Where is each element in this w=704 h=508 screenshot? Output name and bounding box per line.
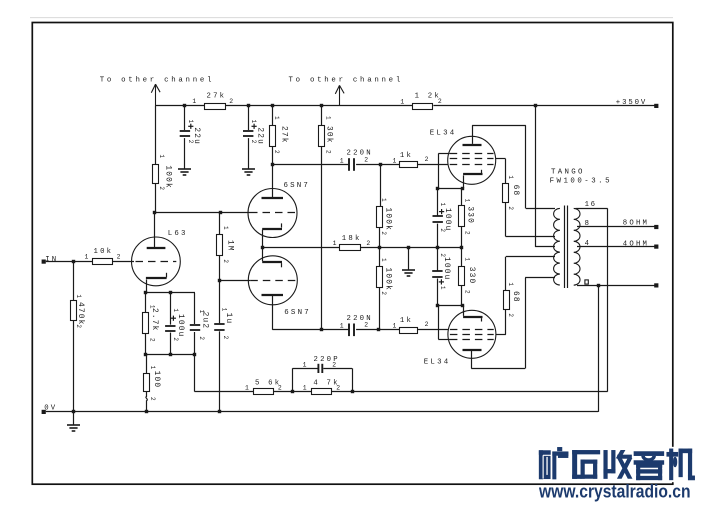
capacitor 22u-2: [243, 130, 253, 132]
node FB1: [291, 390, 294, 393]
svg-text:2: 2: [117, 253, 121, 260]
wire 100u-b to kb rail: [437, 279, 439, 306]
resistor 68-1 body: [503, 184, 509, 203]
svg-text:1: 1: [507, 282, 514, 286]
terminal 8ohm: [654, 225, 658, 229]
svg-text:+350V: +350V: [616, 99, 647, 107]
wire cathodes to 18k: [263, 247, 340, 249]
node B: [377, 328, 380, 331]
wire FB2 up-down: [352, 368, 354, 391]
svg-text:1k: 1k: [400, 317, 413, 325]
plus of 100u-b: [439, 281, 444, 283]
6SN7a cathode bar: [262, 228, 282, 230]
svg-text:1: 1: [439, 203, 446, 207]
svg-text:2: 2: [438, 98, 442, 105]
L63 grid dashes: [136, 261, 177, 263]
node kc2: [169, 291, 172, 294]
svg-text:1: 1: [464, 257, 471, 261]
svg-text:18k: 18k: [342, 235, 362, 243]
6SN7b anode bar: [262, 294, 284, 296]
node L63 anode / 100k: [153, 211, 156, 214]
watermark glyph ji: [670, 449, 673, 480]
svg-text:2: 2: [229, 98, 233, 105]
watermark background: [535, 447, 697, 482]
svg-text:2: 2: [425, 156, 429, 163]
svg-text:1: 1: [439, 286, 446, 290]
EL34a anode bar: [463, 144, 482, 146]
capacitor 100u-b: [432, 270, 442, 272]
svg-text:2: 2: [149, 397, 156, 401]
wire EL34a g2 exit: [496, 158, 506, 160]
svg-text:22u: 22u: [256, 127, 264, 145]
terminal 4ohm: [654, 245, 658, 249]
svg-text:1: 1: [340, 323, 344, 330]
node common cathodes: [261, 246, 264, 249]
arrow to other channel (right): [339, 85, 341, 106]
EL34b anode bar: [463, 349, 482, 351]
node FB2: [351, 390, 354, 393]
capacitor 2u2: [190, 324, 200, 326]
resistor 68-2 body: [504, 291, 510, 310]
EL34a grid1 dashes: [450, 153, 494, 155]
wire IN to 10k: [46, 261, 93, 263]
svg-text:2: 2: [148, 338, 155, 342]
svg-text:100u: 100u: [176, 314, 184, 338]
resistor 1k-2 body: [400, 328, 418, 334]
resistor 27k-vert body: [270, 126, 276, 147]
svg-text:1: 1: [340, 157, 344, 164]
wire 10k to L63 grid: [113, 261, 134, 263]
node kb2: [461, 304, 464, 307]
EL34b grid2 dashes: [450, 334, 494, 336]
wire 16ohm tap: [576, 208, 608, 210]
wire 22u-2 to ground: [248, 138, 250, 169]
svg-text:2: 2: [364, 156, 368, 163]
svg-text:2: 2: [336, 385, 340, 392]
wire 330-a to ground rail: [461, 227, 463, 248]
svg-text:1k: 1k: [400, 152, 413, 160]
plus of 22u-2: [252, 125, 257, 127]
EL34b cathode hook: [481, 318, 483, 321]
watermark glyph kuang: [539, 451, 550, 455]
node lr1: [144, 353, 147, 356]
svg-text:FW100-3.5: FW100-3.5: [550, 177, 612, 185]
wire 68-2 to UL tap lower: [506, 256, 555, 258]
svg-text:1: 1: [149, 366, 156, 370]
wire lower rail: [146, 354, 195, 356]
wire input node to 470k: [73, 262, 75, 300]
wire 2.7k to rail: [145, 333, 147, 354]
wire 470k to 0V rail: [73, 320, 75, 412]
svg-text:1: 1: [400, 98, 404, 105]
svg-text:1: 1: [75, 294, 82, 298]
pentode EL34 upper: [448, 136, 496, 184]
watermark glyph shi: [573, 450, 600, 454]
svg-text:To other channel: To other channel: [100, 76, 214, 84]
svg-text:1u: 1u: [224, 313, 232, 325]
secondary winding: [574, 208, 580, 285]
svg-text:To other channel: To other channel: [289, 76, 403, 84]
resistor 1.2k horizontal body: [413, 104, 433, 110]
6SN7b grid dashes: [250, 280, 295, 282]
svg-text:2: 2: [464, 290, 471, 294]
wire 330-b to kb rail: [461, 285, 463, 305]
wire 100k-A to node M: [379, 227, 381, 247]
resistor 100 body: [144, 374, 150, 392]
svg-text:2: 2: [366, 240, 370, 247]
6SN7a cathode hook: [281, 223, 283, 227]
wire EL34b anode to primary bottom: [525, 277, 555, 279]
wire B+ front rail middle: [225, 105, 413, 107]
wire L63 cathode rail: [146, 292, 195, 294]
svg-text:2: 2: [364, 322, 368, 329]
wire EL34b cathode rail: [437, 305, 462, 307]
svg-text:2.7k: 2.7k: [150, 308, 158, 332]
wire EL34a g3 exit: [438, 153, 449, 155]
wire rail to R100k-left: [155, 106, 157, 165]
6SN7b cathode bar: [262, 261, 282, 263]
wire 100u-a to ground rail: [437, 224, 439, 248]
wire 30k down to lower anode node: [321, 146, 323, 330]
ground mid rail: [402, 269, 415, 271]
wire 1u to 0V rail: [219, 331, 221, 412]
node rail/B+ drop: [534, 104, 537, 107]
wire into 6SN7b grid: [220, 280, 251, 282]
svg-text:6SN7: 6SN7: [284, 182, 311, 190]
wire EL34a anode right: [472, 125, 526, 127]
svg-text:2: 2: [380, 291, 387, 295]
L63 cathode bar: [146, 277, 167, 279]
terminal IN: [42, 260, 46, 264]
svg-text:TANGO: TANGO: [551, 168, 585, 176]
capacitor 100u-c: [165, 325, 175, 327]
capacitor 220N-1: [348, 158, 350, 171]
wire grid-b node down to 1u: [219, 280, 221, 323]
wire ka to 330-a: [461, 188, 463, 205]
svg-text:1: 1: [324, 116, 331, 120]
svg-text:1: 1: [85, 253, 89, 260]
wire 68-1 down: [505, 203, 507, 237]
resistor 100k-B body: [377, 267, 383, 288]
node rail/22u-2: [247, 104, 250, 107]
wire rail to C 22u-2: [248, 106, 250, 130]
svg-text:1: 1: [158, 154, 165, 158]
svg-text:2: 2: [425, 321, 429, 328]
wire 6SN7b anode lead: [272, 296, 274, 330]
node ka2: [461, 187, 464, 190]
6SN7a anode bar: [262, 197, 284, 199]
svg-text:1: 1: [303, 362, 307, 369]
EL34a cathode bar: [463, 173, 482, 175]
wire g3 to cathode node: [438, 154, 440, 189]
node anode-b/30k: [320, 328, 323, 331]
wire B+ rail to +350V: [433, 105, 656, 107]
svg-text:1: 1: [192, 98, 196, 105]
svg-text:220N: 220N: [347, 150, 373, 158]
6SN7b cathode hook: [281, 263, 283, 267]
wire 6SN7a cathode lead: [262, 230, 264, 248]
watermark glyph yin: [634, 452, 664, 456]
wire 0 tap: [577, 285, 656, 287]
wire g3 to cathode node b: [438, 305, 440, 339]
svg-text:100u: 100u: [442, 257, 450, 281]
wire ground rail to 330-b: [461, 247, 463, 266]
wire EL34a cathode rail: [438, 188, 463, 190]
wire 4ohm tap: [577, 246, 656, 248]
node ka1: [436, 187, 439, 190]
node rail/30k: [320, 104, 323, 107]
wire L63 cathode lead: [146, 280, 148, 294]
resistor 1k-1 body: [400, 162, 418, 168]
resistor 100k-left body: [153, 165, 159, 184]
svg-text:8OHM: 8OHM: [623, 220, 649, 228]
wire to 100u-c: [170, 293, 172, 325]
wire 16ohm feedback drop: [607, 208, 609, 391]
wire 1k-2 to EL34b grid: [418, 329, 448, 331]
node rail/27k-vert: [271, 104, 274, 107]
wire 18k to ground rail: [361, 247, 462, 249]
resistor 470k body: [71, 301, 77, 321]
svg-text:4OHM: 4OHM: [623, 240, 649, 248]
triode L63: [132, 237, 181, 286]
wire grid-a node to 1M: [219, 213, 221, 234]
wire into 6SN7a grid: [221, 212, 250, 214]
capacitor 100u-a: [433, 215, 443, 217]
wire EL34b g3 exit: [438, 339, 450, 341]
wire rail to 30k: [321, 106, 323, 125]
wire 0V to ground: [73, 412, 75, 425]
wire 2u2 down: [194, 332, 196, 354]
resistor 4.7k body: [312, 389, 332, 395]
wire 220N-2 to 1k-2: [356, 329, 400, 331]
svg-text:1: 1: [250, 120, 257, 124]
EL34b grid1 dashes: [450, 329, 494, 331]
wire anode-a to 220N-1: [273, 164, 349, 166]
ground under 22u-1: [178, 168, 191, 170]
wire EL34a anode up: [472, 125, 474, 144]
node gr2: [460, 246, 463, 249]
wire EL34b anode right: [471, 368, 525, 370]
svg-text:1: 1: [393, 157, 397, 164]
terminal +350V: [654, 104, 658, 108]
watermark glyph shou: [604, 450, 608, 478]
wire 100 to 0V (with squiggle): [146, 391, 147, 412]
svg-text:1: 1: [464, 199, 471, 203]
wire 6SN7b cathode lead: [262, 247, 264, 261]
svg-text:68: 68: [511, 291, 519, 303]
svg-text:27k: 27k: [207, 93, 227, 101]
svg-text:8: 8: [585, 220, 589, 228]
wire FB rail to 16ohm riser: [331, 391, 607, 393]
EL34b grid3 dashes: [450, 339, 494, 341]
svg-text:30k: 30k: [325, 126, 333, 144]
wire ground rail to 100u-b: [437, 247, 439, 270]
EL34a grid3 dashes: [450, 164, 494, 166]
node 0V/470k: [72, 410, 75, 413]
svg-text:1: 1: [273, 116, 280, 120]
wire 5.6k to 4.7k: [274, 391, 312, 393]
svg-text:L63: L63: [168, 230, 188, 238]
wire g2 to 68-1: [505, 159, 507, 184]
EL34a cathode hook: [481, 170, 483, 173]
wire node M to 100k-B: [379, 247, 381, 266]
wire FB1 up: [292, 368, 294, 391]
wire 0 tap to 0V rail: [598, 285, 600, 412]
wire EL34b anode down: [471, 351, 473, 369]
wire 68-1 to UL tap upper: [506, 236, 555, 238]
6SN7a grid dashes: [250, 212, 295, 214]
core lines: [564, 206, 566, 289]
svg-text:100u: 100u: [443, 208, 451, 232]
svg-text:1: 1: [333, 240, 337, 247]
terminal 0V: [42, 410, 46, 414]
svg-text:www.crystalradio.cn: www.crystalradio.cn: [538, 482, 690, 503]
wire B+ front rail left: [155, 105, 204, 107]
node grid-b: [218, 279, 221, 282]
svg-text:1: 1: [393, 323, 397, 330]
svg-text:1: 1: [380, 258, 387, 262]
resistor 330-a body: [459, 206, 465, 227]
wire g2 to 68-2: [505, 310, 507, 335]
svg-text:2: 2: [324, 150, 331, 154]
node lr3: [193, 353, 196, 356]
wire 1k-1 to EL34a grid: [418, 164, 448, 166]
svg-text:2: 2: [172, 337, 179, 341]
node gr1: [436, 246, 439, 249]
svg-text:EL34: EL34: [430, 129, 457, 137]
node A: [379, 163, 382, 166]
svg-text:470k: 470k: [76, 302, 84, 326]
svg-text:EL34: EL34: [424, 358, 451, 366]
wire 27k-vert to anode node: [272, 146, 274, 165]
svg-text:330: 330: [467, 267, 475, 285]
node kc1: [144, 291, 147, 294]
arrow to other channel (left): [155, 84, 157, 106]
resistor 30k body: [319, 126, 325, 147]
wire EL34a cathode lead: [463, 175, 465, 188]
svg-text:100: 100: [152, 371, 160, 389]
wire node A to 100k-A: [380, 165, 382, 207]
wire B+ to primary CT: [535, 246, 555, 248]
svg-text:1: 1: [172, 308, 179, 312]
faint page edge line: [30, 17, 673, 19]
wire 1M to grid-b node: [219, 255, 221, 280]
resistor 330-b body: [459, 267, 465, 286]
svg-text:330: 330: [466, 206, 474, 224]
EL34b cathode bar: [463, 316, 482, 318]
wire 220P to FB2 riser: [323, 368, 352, 370]
svg-text:27k: 27k: [279, 126, 287, 144]
wire FB rail to 5.6k: [195, 391, 254, 393]
wire 22u-1 to ground: [184, 138, 186, 169]
resistor 27k horizontal body: [205, 104, 226, 110]
wire rail to 2u2: [194, 293, 196, 324]
svg-text:2: 2: [273, 150, 280, 154]
node grid-a / 1M: [219, 211, 222, 214]
svg-text:22u: 22u: [192, 127, 200, 145]
resistor 1M body: [217, 235, 223, 256]
wire L63 anode lead: [154, 213, 156, 247]
wire 0V rail: [46, 411, 598, 413]
svg-text:2u2: 2u2: [200, 312, 208, 330]
node kb1: [436, 304, 439, 307]
node M: [378, 246, 381, 249]
wire 8ohm tap: [577, 226, 656, 228]
node input / 470k: [72, 260, 75, 263]
svg-text:100k: 100k: [383, 268, 391, 292]
svg-text:1: 1: [303, 385, 307, 392]
svg-text:6SN7: 6SN7: [284, 309, 311, 317]
L63 cathode hook: [166, 273, 168, 278]
wire 100u-c to rail: [170, 333, 172, 354]
svg-text:2: 2: [380, 231, 387, 235]
node anode-a: [271, 163, 274, 166]
wire to ground symbol: [408, 247, 410, 270]
svg-text:2: 2: [332, 362, 336, 369]
node 0 tap / ground drop: [597, 284, 600, 287]
svg-text:1: 1: [221, 308, 228, 312]
wire EL34b cathode lead: [463, 305, 465, 316]
capacitor 1u: [214, 323, 224, 325]
triode 6SN7 upper: [248, 189, 297, 238]
svg-text:2: 2: [507, 313, 514, 317]
ground 0V: [67, 424, 80, 426]
wire rail to C 22u-1: [184, 106, 186, 130]
wire to 220P: [293, 368, 318, 370]
svg-text:1: 1: [507, 175, 514, 179]
wire ka to 100u-a: [437, 188, 439, 215]
node rail/22u-1: [183, 104, 186, 107]
L63 anode bar: [147, 247, 166, 249]
svg-text:2: 2: [507, 206, 514, 210]
wire L63 anode to 6SN7a grid: [155, 212, 221, 214]
triode 6SN7 lower (mirrored): [248, 256, 297, 305]
svg-text:100k: 100k: [383, 208, 391, 232]
wire B+ drop: [535, 106, 537, 247]
plus of 22u-1: [188, 125, 193, 127]
svg-text:2: 2: [464, 231, 471, 235]
resistor 5.6k body: [254, 389, 274, 395]
svg-text:10k: 10k: [94, 248, 114, 256]
node lr2: [169, 353, 172, 356]
svg-text:68: 68: [511, 185, 519, 197]
wire rail to 100: [146, 354, 148, 374]
capacitor 220N-2: [348, 324, 350, 337]
node 0V/1u: [218, 410, 221, 413]
resistor 10k body: [93, 259, 113, 265]
svg-text:IN: IN: [45, 256, 58, 264]
EL34a grid2 dashes: [450, 158, 494, 160]
node ground stem: [407, 246, 410, 249]
svg-text:2: 2: [222, 336, 229, 340]
svg-text:16: 16: [585, 201, 597, 209]
svg-text:2: 2: [198, 336, 205, 340]
label 0 tap square glyph: [585, 280, 588, 284]
svg-text:1: 1: [187, 120, 194, 124]
svg-text:4: 4: [585, 240, 589, 248]
terminal 0ohm: [654, 283, 658, 287]
svg-text:1: 1: [380, 198, 387, 202]
pentode EL34 lower (mirrored): [448, 310, 496, 358]
capacitor 22u-1: [180, 130, 190, 132]
svg-text:220N: 220N: [347, 315, 373, 323]
wire 100k-B to node B: [379, 287, 381, 330]
wire EL34a anode to primary top: [526, 208, 555, 210]
svg-text:1: 1: [222, 226, 229, 230]
plus of 100u-c: [171, 317, 176, 319]
resistor 100k-A body: [377, 207, 383, 228]
svg-text:1M: 1M: [226, 240, 234, 252]
